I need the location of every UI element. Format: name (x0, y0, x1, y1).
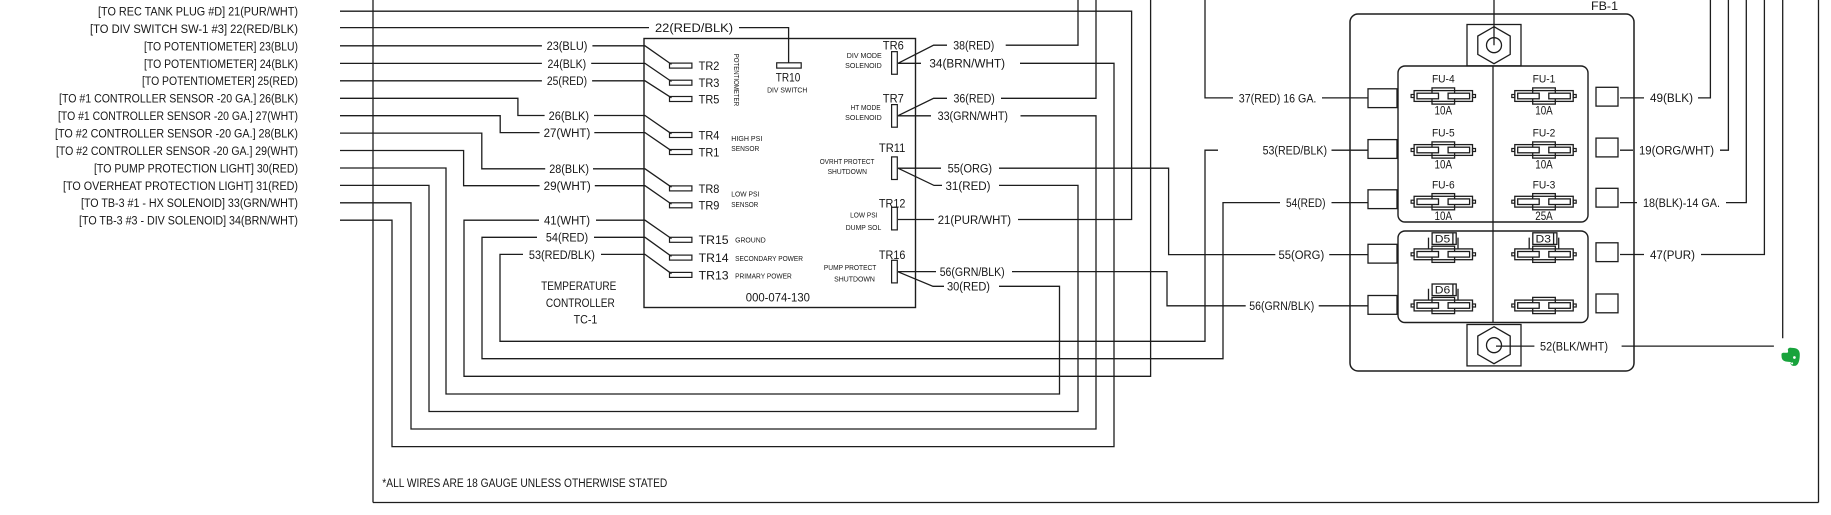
svg-text:28(BLK): 28(BLK) (549, 162, 589, 176)
svg-text:41(WHT): 41(WHT) (544, 214, 590, 228)
svg-text:DIV MODE: DIV MODE (847, 51, 882, 60)
svg-text:[TO POTENTIOMETER] 23(BLU): [TO POTENTIOMETER] 23(BLU) (144, 39, 298, 53)
svg-text:18(BLK)-14 GA.: 18(BLK)-14 GA. (1643, 196, 1720, 210)
svg-text:29(WHT): 29(WHT) (544, 179, 591, 193)
svg-text:36(RED): 36(RED) (954, 92, 995, 106)
svg-text:CONTROLLER: CONTROLLER (546, 296, 615, 310)
svg-text:TR5: TR5 (699, 92, 720, 106)
svg-text:D6: D6 (1435, 285, 1451, 297)
svg-text:[TO #1 CONTROLLER SENSOR -20 G: [TO #1 CONTROLLER SENSOR -20 GA.] 27(WHT… (58, 109, 298, 123)
svg-text:[TO TB-3 #3 - DIV SOLENOID] 34: [TO TB-3 #3 - DIV SOLENOID] 34(BRN/WHT) (79, 214, 298, 228)
svg-text:38(RED): 38(RED) (953, 39, 994, 53)
svg-text:TC-1: TC-1 (574, 312, 598, 326)
svg-text:SECONDARY POWER: SECONDARY POWER (735, 254, 803, 263)
svg-text:SENSOR: SENSOR (731, 144, 759, 153)
svg-text:10A: 10A (1435, 210, 1453, 223)
svg-text:FU-4: FU-4 (1432, 74, 1455, 86)
svg-text:POTENTIOMETER: POTENTIOMETER (732, 54, 741, 107)
svg-text:49(BLK): 49(BLK) (1650, 91, 1693, 105)
svg-text:FU-5: FU-5 (1432, 128, 1455, 140)
svg-text:[TO REC TANK PLUG #D] 21(PUR/W: [TO REC TANK PLUG #D] 21(PUR/WHT) (98, 5, 298, 19)
svg-text:[TO PUMP PROTECTION LIGHT] 30(: [TO PUMP PROTECTION LIGHT] 30(RED) (94, 161, 298, 175)
svg-text:FU-1: FU-1 (1533, 74, 1556, 86)
svg-text:PUMP PROTECT: PUMP PROTECT (824, 263, 877, 272)
svg-text:TR7: TR7 (883, 92, 904, 106)
svg-text:[TO OVERHEAT PROTECTION LIGHT]: [TO OVERHEAT PROTECTION LIGHT] 31(RED) (63, 179, 298, 193)
svg-text:47(PUR): 47(PUR) (1650, 248, 1695, 262)
svg-text:FU-2: FU-2 (1533, 128, 1556, 140)
svg-text:TR13: TR13 (699, 268, 729, 282)
svg-text:TR1: TR1 (699, 145, 720, 159)
svg-text:[TO #2 CONTROLLER SENSOR -20 G: [TO #2 CONTROLLER SENSOR -20 GA.] 29(WHT… (56, 144, 298, 158)
svg-text:TR2: TR2 (699, 59, 720, 73)
svg-text:53(RED/BLK): 53(RED/BLK) (1263, 144, 1327, 158)
svg-text:000-074-130: 000-074-130 (746, 290, 810, 304)
svg-text:SHUTDOWN: SHUTDOWN (828, 167, 867, 176)
svg-text:TR15: TR15 (699, 233, 729, 247)
svg-text:23(BLU): 23(BLU) (547, 39, 588, 53)
svg-text:TR11: TR11 (879, 141, 906, 155)
svg-text:GROUND: GROUND (735, 236, 766, 245)
svg-text:53(RED/BLK): 53(RED/BLK) (529, 248, 595, 262)
svg-text:TR9: TR9 (699, 199, 720, 213)
svg-text:55(ORG): 55(ORG) (1279, 248, 1325, 262)
svg-text:D5: D5 (1435, 234, 1451, 246)
svg-text:56(GRN/BLK): 56(GRN/BLK) (940, 265, 1005, 279)
svg-text:DIV SWITCH: DIV SWITCH (767, 85, 807, 94)
svg-text:TR6: TR6 (883, 39, 904, 53)
svg-text:OVRHT PROTECT: OVRHT PROTECT (820, 157, 875, 166)
svg-text:25(RED): 25(RED) (547, 74, 587, 88)
svg-text:TR8: TR8 (699, 182, 720, 196)
svg-text:FU-3: FU-3 (1533, 179, 1556, 191)
svg-text:37(RED) 16 GA.: 37(RED) 16 GA. (1239, 91, 1317, 105)
svg-text:SENSOR: SENSOR (731, 200, 758, 209)
svg-text:34(BRN/WHT): 34(BRN/WHT) (929, 57, 1005, 71)
svg-text:TR12: TR12 (879, 196, 906, 210)
svg-text:10A: 10A (1435, 105, 1453, 118)
svg-text:26(BLK): 26(BLK) (549, 109, 589, 123)
svg-text:SHUTDOWN: SHUTDOWN (834, 274, 875, 283)
svg-text:56(GRN/BLK): 56(GRN/BLK) (1249, 299, 1314, 313)
svg-text:10A: 10A (1535, 159, 1553, 172)
svg-text:HIGH PSI: HIGH PSI (731, 134, 762, 143)
svg-text:LOW PSI: LOW PSI (731, 189, 759, 198)
svg-text:*ALL WIRES ARE 18 GAUGE UNLESS: *ALL WIRES ARE 18 GAUGE UNLESS OTHERWISE… (382, 476, 667, 490)
svg-text:[TO #2 CONTROLLER SENSOR -20 G: [TO #2 CONTROLLER SENSOR -20 GA.] 28(BLK… (55, 127, 298, 141)
svg-text:[TO TB-3 #1 - HX SOLENOID] 33(: [TO TB-3 #1 - HX SOLENOID] 33(GRN/WHT) (81, 196, 298, 210)
svg-text:54(RED): 54(RED) (1286, 196, 1326, 210)
svg-text:54(RED): 54(RED) (546, 231, 588, 245)
svg-text:TR4: TR4 (699, 128, 720, 142)
svg-text:22(RED/BLK): 22(RED/BLK) (655, 21, 733, 35)
svg-text:[TO DIV SWITCH SW-1 #3] 22(RED: [TO DIV SWITCH SW-1 #3] 22(RED/BLK) (90, 22, 298, 36)
svg-text:[TO #1 CONTROLLER SENSOR -20 G: [TO #1 CONTROLLER SENSOR -20 GA.] 26(BLK… (59, 92, 298, 106)
svg-text:24(BLK): 24(BLK) (548, 57, 587, 71)
svg-text:TR14: TR14 (699, 251, 729, 265)
svg-text:[TO POTENTIOMETER] 25(RED): [TO POTENTIOMETER] 25(RED) (142, 74, 298, 88)
svg-text:SOLENOID: SOLENOID (845, 61, 882, 70)
svg-text:TEMPERATURE: TEMPERATURE (541, 279, 616, 293)
svg-text:25A: 25A (1535, 210, 1553, 223)
svg-text:21(PUR/WHT): 21(PUR/WHT) (938, 213, 1011, 227)
svg-text:31(RED): 31(RED) (946, 179, 991, 193)
svg-text:33(GRN/WHT): 33(GRN/WHT) (938, 109, 1008, 123)
svg-text:DUMP SOL: DUMP SOL (846, 223, 882, 232)
svg-text:27(WHT): 27(WHT) (544, 126, 591, 140)
svg-text:TR16: TR16 (879, 248, 906, 262)
svg-text:30(RED): 30(RED) (947, 280, 990, 294)
svg-text:10A: 10A (1435, 159, 1453, 172)
svg-text:FU-6: FU-6 (1432, 179, 1455, 191)
svg-text:TR10: TR10 (776, 70, 801, 84)
svg-text:TR3: TR3 (699, 76, 720, 90)
svg-text:LOW PSI: LOW PSI (850, 210, 877, 219)
svg-text:19(ORG/WHT): 19(ORG/WHT) (1639, 144, 1714, 158)
svg-text:SOLENOID: SOLENOID (845, 113, 882, 122)
svg-text:FB-1: FB-1 (1591, 0, 1618, 13)
svg-text:D3: D3 (1536, 234, 1552, 246)
svg-text:PRIMARY POWER: PRIMARY POWER (735, 272, 792, 281)
svg-text:HT MODE: HT MODE (851, 103, 881, 112)
svg-text:10A: 10A (1535, 105, 1553, 118)
svg-text:[TO POTENTIOMETER] 24(BLK): [TO POTENTIOMETER] 24(BLK) (144, 57, 298, 71)
svg-text:52(BLK/WHT): 52(BLK/WHT) (1540, 340, 1608, 354)
svg-text:55(ORG): 55(ORG) (948, 162, 993, 176)
